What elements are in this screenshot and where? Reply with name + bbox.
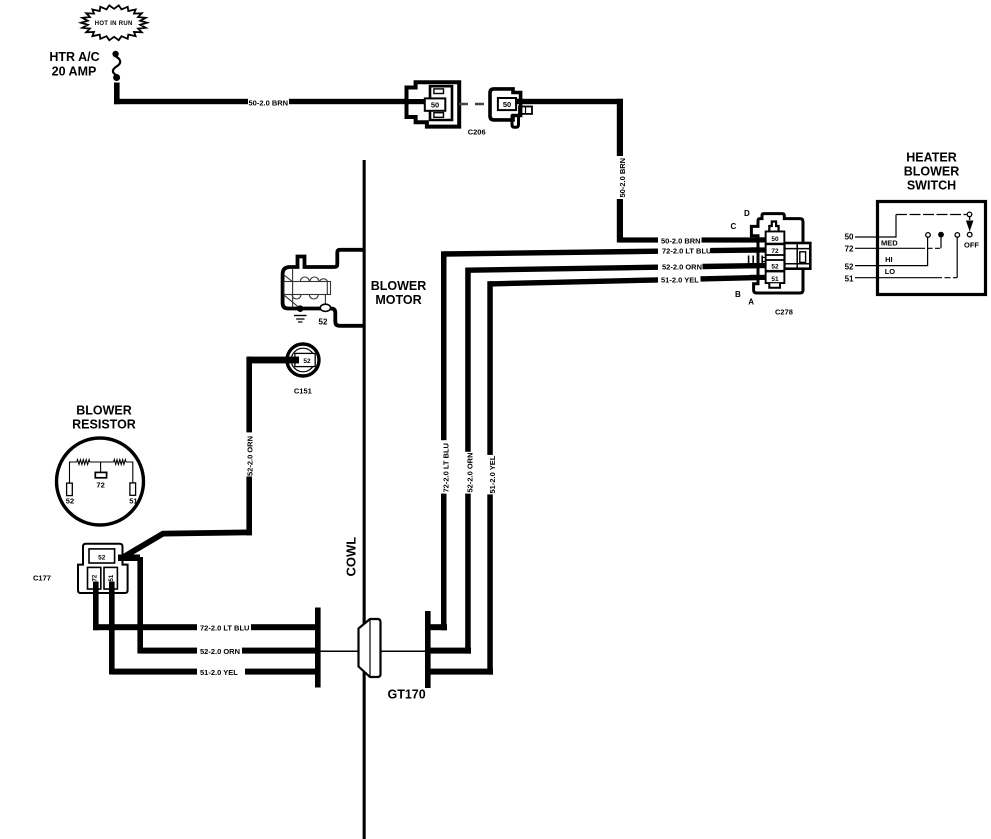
svg-text:51-2.0 YEL: 51-2.0 YEL: [488, 455, 497, 493]
svg-text:52: 52: [98, 555, 106, 562]
svg-text:C177: C177: [33, 574, 51, 583]
svg-text:50: 50: [845, 233, 854, 242]
svg-text:52: 52: [771, 264, 779, 271]
svg-text:RESISTOR: RESISTOR: [72, 418, 136, 432]
svg-text:B: B: [735, 290, 741, 299]
svg-text:SWITCH: SWITCH: [907, 179, 956, 193]
svg-text:51-2.0 YEL: 51-2.0 YEL: [200, 668, 238, 677]
svg-text:52-2.0 ORN: 52-2.0 ORN: [246, 436, 255, 476]
svg-text:BLOWER: BLOWER: [904, 165, 960, 179]
svg-text:HOT IN RUN: HOT IN RUN: [95, 21, 133, 27]
svg-text:72: 72: [771, 248, 779, 255]
svg-text:51: 51: [771, 276, 779, 283]
svg-text:72: 72: [845, 245, 854, 254]
svg-text:51: 51: [109, 574, 115, 581]
svg-text:C: C: [731, 222, 737, 231]
svg-text:HTR A/C: HTR A/C: [49, 50, 99, 64]
svg-text:A: A: [748, 297, 754, 306]
svg-text:50-2.0 BRN: 50-2.0 BRN: [249, 98, 289, 107]
svg-text:HI: HI: [885, 255, 893, 264]
svg-text:52-2.0 ORN: 52-2.0 ORN: [466, 452, 475, 492]
svg-text:COWL: COWL: [344, 537, 359, 577]
svg-text:72-2.0 LT BLU: 72-2.0 LT BLU: [200, 623, 249, 632]
svg-text:51: 51: [129, 497, 137, 506]
svg-text:HEATER: HEATER: [906, 151, 956, 165]
svg-text:72: 72: [93, 574, 99, 581]
svg-text:50: 50: [771, 236, 779, 243]
svg-text:MOTOR: MOTOR: [375, 293, 421, 307]
svg-text:52: 52: [303, 358, 311, 365]
svg-text:51-2.0 YEL: 51-2.0 YEL: [661, 275, 699, 284]
svg-text:20 AMP: 20 AMP: [52, 65, 97, 79]
svg-text:OFF: OFF: [964, 241, 979, 250]
svg-text:D: D: [744, 209, 750, 218]
svg-text:BLOWER: BLOWER: [76, 404, 132, 418]
svg-text:MED: MED: [881, 239, 898, 248]
svg-text:72: 72: [96, 481, 104, 490]
svg-text:52: 52: [845, 262, 854, 271]
svg-text:52: 52: [66, 497, 74, 506]
svg-text:52-2.0 ORN: 52-2.0 ORN: [200, 647, 240, 656]
svg-text:50: 50: [431, 101, 439, 110]
svg-text:72-2.0 LT BLU: 72-2.0 LT BLU: [662, 247, 711, 256]
svg-text:51: 51: [845, 275, 854, 284]
svg-text:50: 50: [503, 100, 511, 109]
svg-text:52-2.0 ORN: 52-2.0 ORN: [662, 263, 702, 272]
svg-text:50-2.0 BRN: 50-2.0 BRN: [661, 236, 701, 245]
svg-text:52: 52: [319, 318, 328, 327]
svg-text:LO: LO: [885, 267, 896, 276]
svg-text:C206: C206: [468, 128, 486, 137]
svg-text:C151: C151: [294, 387, 312, 396]
svg-text:72-2.0 LT BLU: 72-2.0 LT BLU: [442, 443, 451, 492]
svg-text:50-2.0 BRN: 50-2.0 BRN: [618, 158, 627, 198]
svg-text:BLOWER: BLOWER: [371, 279, 427, 293]
svg-text:GT170: GT170: [388, 688, 426, 702]
svg-text:C278: C278: [775, 308, 793, 317]
